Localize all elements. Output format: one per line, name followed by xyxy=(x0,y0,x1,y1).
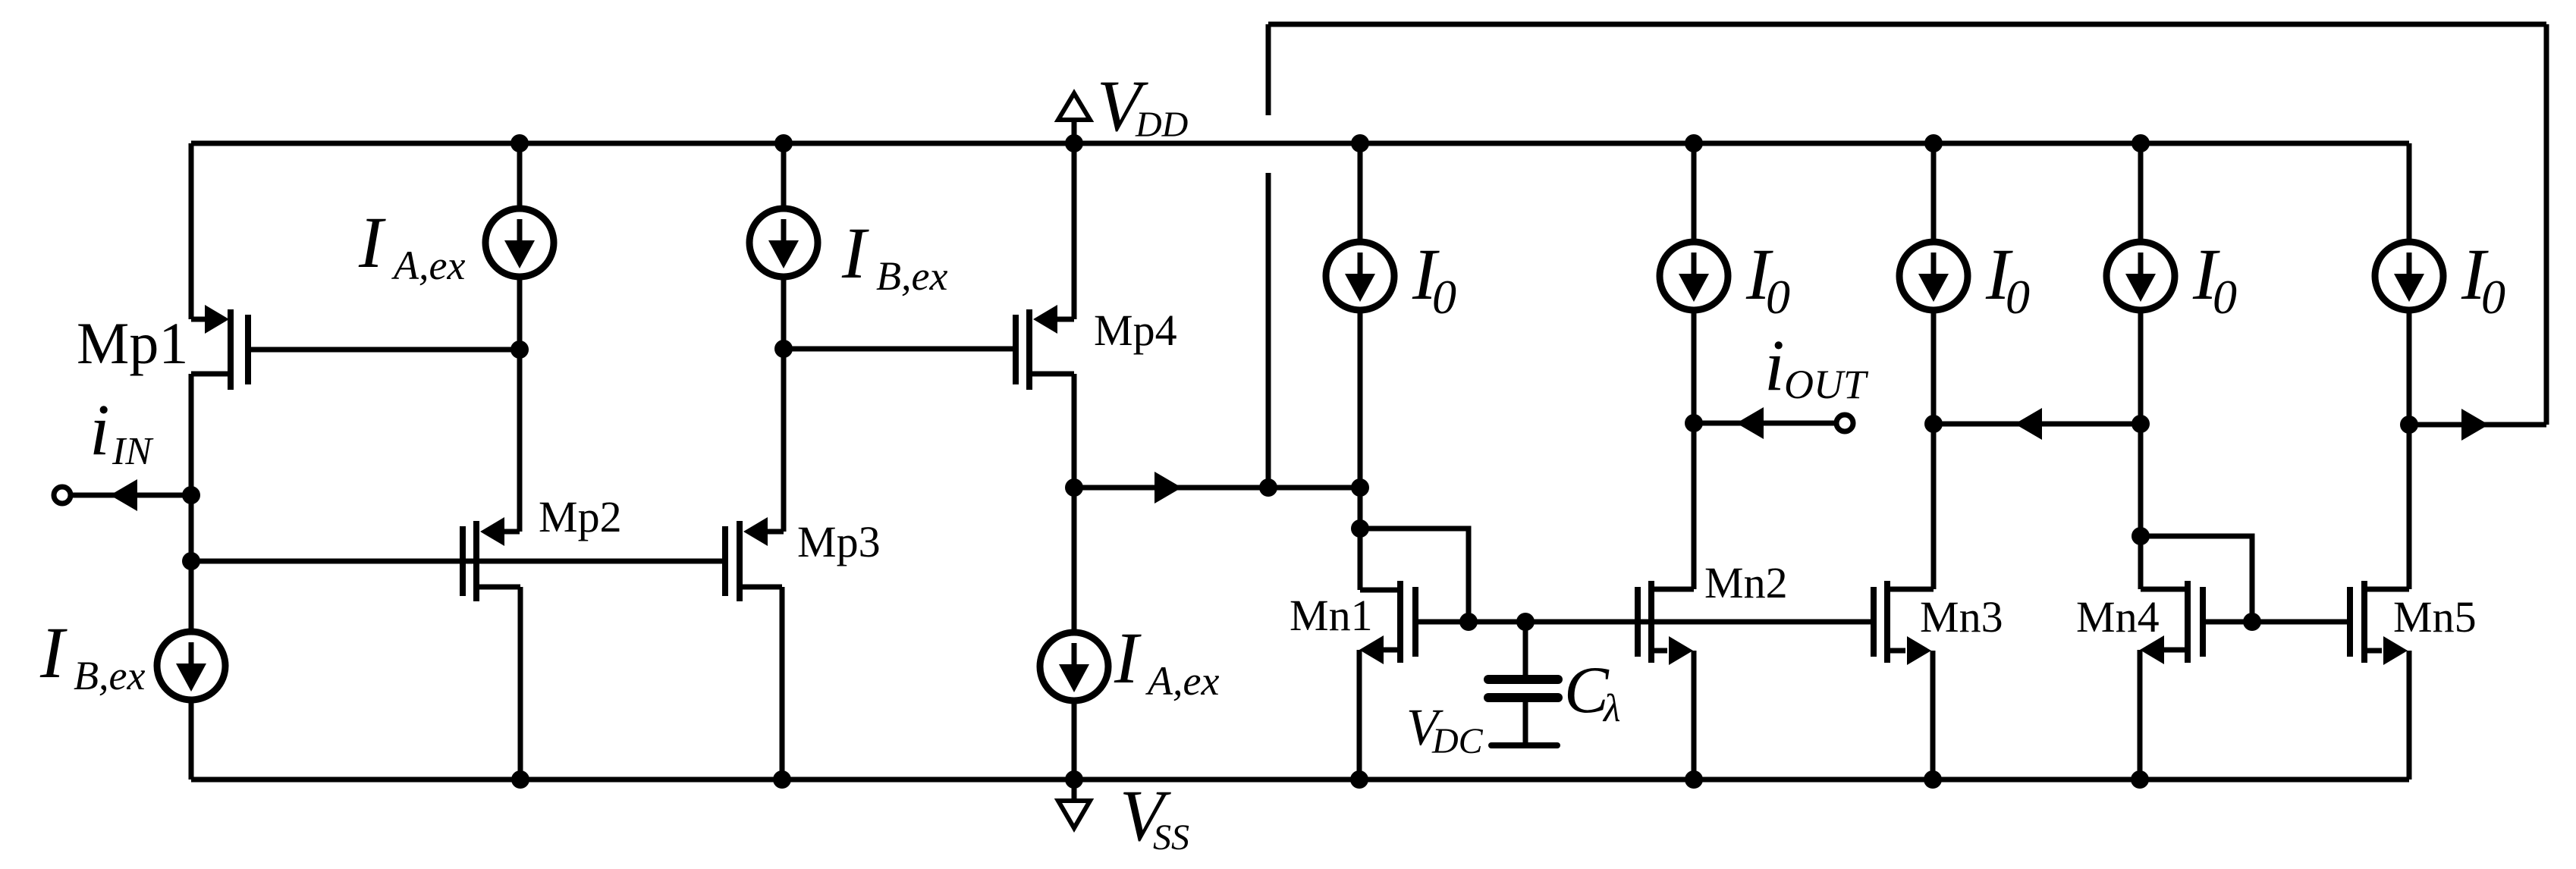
wire Mn4 diode loop xyxy=(2141,536,2252,622)
node VDD/I_0-3 junction xyxy=(1924,134,1943,152)
node Mp4 drain junction xyxy=(1065,478,1083,497)
svg-text:Mn4: Mn4 xyxy=(2076,592,2160,642)
wire Mn4 node to Mn3 node xyxy=(1934,422,2141,427)
svg-text:I: I xyxy=(39,612,68,693)
node Mn1 drain junction xyxy=(1351,478,1369,497)
wire VDD to I_0 fourth xyxy=(2138,143,2144,241)
transistor Mn5 xyxy=(2347,587,2353,657)
svg-text:A,ex: A,ex xyxy=(1145,658,1219,704)
wire I_A,ex bottom to VSS xyxy=(1072,701,1077,780)
wire Mn1 diode loop xyxy=(1360,529,1469,622)
wire VDD to I_0 third xyxy=(1931,143,1937,241)
svg-text:DC: DC xyxy=(1431,721,1484,761)
svg-text:0: 0 xyxy=(1432,270,1456,324)
capacitor C_lambda xyxy=(1523,622,1528,676)
current source I_0 third xyxy=(1899,242,1968,310)
svg-text:Mn1: Mn1 xyxy=(1290,591,1373,640)
node Mn4 diode junction xyxy=(2131,527,2150,545)
transistor Mn2 xyxy=(1635,587,1641,657)
node feedback/left junction xyxy=(1259,478,1277,497)
wire Mp4 drain to Mn1 drain node xyxy=(1074,485,1360,491)
wire I_0 to Mn1 drain xyxy=(1358,311,1363,590)
current source I_0 fourth xyxy=(2106,242,2175,310)
transistor Mp2 xyxy=(460,526,466,596)
wire VDD to I_A,ex xyxy=(517,143,523,208)
svg-text:0: 0 xyxy=(1766,270,1790,324)
wire feedback vertical left (above crossing) xyxy=(1266,24,1271,115)
svg-text:Mn2: Mn2 xyxy=(1704,558,1788,607)
wire VDD to Mp4 source xyxy=(1072,143,1077,319)
power symbol VSS xyxy=(1072,780,1077,801)
terminal i_IN xyxy=(54,487,71,504)
node Mn4 source / VSS junction xyxy=(2131,770,2149,789)
node Mn3 source / VSS junction xyxy=(1924,770,1942,789)
arrow i_OUT direction xyxy=(1736,407,1764,439)
wire Mp1 source to VDD xyxy=(189,143,194,319)
wire I_A,ex to node A and Mp2 source xyxy=(517,278,523,532)
svg-text:DD: DD xyxy=(1135,105,1188,145)
svg-text:Mn3: Mn3 xyxy=(1920,592,2003,642)
node i_OUT junction xyxy=(1685,414,1703,432)
node VDD/I_0-1 junction xyxy=(1351,134,1369,152)
svg-text:I: I xyxy=(358,202,386,283)
node gate bus / loop junction xyxy=(1459,613,1478,631)
wire Mn5 node to feedback xyxy=(2409,422,2546,428)
wire Mn1 drain stub xyxy=(1360,588,1400,593)
wire I_B,ex to VSS xyxy=(189,701,194,780)
node B junction xyxy=(774,340,793,358)
svg-text:I: I xyxy=(841,212,869,293)
svg-text:A,ex: A,ex xyxy=(391,243,465,288)
arrow current direction into Mn1 xyxy=(1154,472,1182,504)
transistor Mp1 xyxy=(191,317,207,322)
svg-text:IN: IN xyxy=(112,430,154,473)
svg-text:i: i xyxy=(1764,325,1785,406)
transistor Mn4 xyxy=(2185,581,2191,663)
node VDD/I_A,ex junction xyxy=(510,134,529,152)
node A junction xyxy=(510,340,529,359)
wire Mn4 source to VSS xyxy=(2138,650,2143,780)
wire feedback vertical left (below crossing) xyxy=(1266,173,1271,488)
wire Mp2 drain to VSS xyxy=(518,587,523,780)
node VDD/I_0-2 junction xyxy=(1685,134,1703,152)
node VDD/Mp4 junction xyxy=(1065,134,1083,152)
node Mn3 drain junction xyxy=(1924,415,1943,433)
node Mp2 drain / VSS junction xyxy=(511,770,529,789)
svg-text:C: C xyxy=(1564,654,1610,727)
wire Mn2 source to VSS xyxy=(1692,651,1697,780)
svg-text:B,ex: B,ex xyxy=(74,653,145,698)
arrow current direction into Mn3 xyxy=(2015,408,2042,440)
wire gate bus Mp2-Mp3 xyxy=(191,559,725,564)
current source I_0 first xyxy=(1326,242,1394,310)
wire VDD rail xyxy=(191,141,2409,146)
node Mp1 drain / gate-bus junction xyxy=(182,552,200,570)
transistor Mp4 xyxy=(1013,315,1019,384)
svg-text:Mp2: Mp2 xyxy=(539,492,622,541)
transistor Mn3 xyxy=(1871,587,1877,657)
wire i_OUT xyxy=(1694,421,1834,426)
svg-text:0: 0 xyxy=(2006,270,2030,324)
svg-text:I: I xyxy=(1114,617,1142,698)
wire I_0 to Mn3 drain xyxy=(1931,311,1937,589)
wire Mp3 drain to VSS xyxy=(780,587,785,780)
wire i_IN xyxy=(73,493,191,498)
node Mn2 source / VSS junction xyxy=(1685,770,1703,789)
svg-text:Mp1: Mp1 xyxy=(77,310,188,376)
transistor Mn1 xyxy=(1397,581,1403,663)
svg-text:i: i xyxy=(90,389,110,470)
arrow current direction to feedback xyxy=(2461,409,2489,441)
node Mp3 drain / VSS junction xyxy=(773,770,791,789)
current source I_0 fifth xyxy=(2375,242,2443,310)
svg-text:0: 0 xyxy=(2481,270,2505,324)
power symbol VDD xyxy=(1058,93,1090,120)
arrow i_IN direction xyxy=(110,479,137,511)
terminal i_OUT xyxy=(1836,415,1853,431)
current source I_A,ex (bottom) xyxy=(1040,632,1108,701)
node Mn1 source / VSS junction xyxy=(1350,770,1368,789)
node Mn1 diode junction xyxy=(1351,519,1369,538)
wire I_0 to Mn5 drain xyxy=(2407,311,2412,589)
svg-text:λ: λ xyxy=(1602,687,1621,730)
current source I_A,ex (top) xyxy=(485,209,554,277)
node VDD/I_0-4 junction xyxy=(2131,134,2150,152)
node gate bus / loop junction Mn4 xyxy=(2243,613,2261,631)
current source I_B,ex (top) xyxy=(749,209,818,277)
node I_A,ex / VSS junction xyxy=(1065,770,1083,789)
wire VSS rail xyxy=(191,777,2409,783)
wire Mn1 source to VSS xyxy=(1357,650,1362,780)
wire feedback vertical right xyxy=(2544,24,2549,425)
svg-text:Mp4: Mp4 xyxy=(1094,306,1177,355)
node gate bus / C junction xyxy=(1516,613,1535,631)
node VDD/I_B,ex junction xyxy=(774,134,793,152)
current source I_0 second xyxy=(1660,242,1728,310)
node Mn4 drain junction xyxy=(2131,415,2150,433)
wire I_0 to Mn2 drain xyxy=(1692,311,1697,589)
wire Mp4 drain down xyxy=(1072,374,1077,631)
wire feedback top xyxy=(1268,22,2546,27)
wire Mn4 drain stub xyxy=(2141,587,2188,592)
wire Mn5 source to VSS xyxy=(2407,651,2412,780)
current source I_B,ex (left) xyxy=(157,632,225,700)
wire VDD to I_0 first xyxy=(1358,143,1363,241)
wire Mn3 source to VSS xyxy=(1930,651,1936,780)
transistor Mp3 xyxy=(722,526,728,596)
svg-text:OUT: OUT xyxy=(1784,362,1869,407)
wire VDD to I_0 second xyxy=(1692,143,1697,241)
node i_IN junction xyxy=(182,486,200,504)
node Mn5 drain junction xyxy=(2400,416,2418,434)
wire I_0 to Mn4 drain xyxy=(2138,311,2144,589)
wire gate bus Mn1-Mn2-Mn3 xyxy=(1415,620,1874,625)
wire Mp1 drain down xyxy=(189,374,194,631)
svg-text:0: 0 xyxy=(2213,270,2237,324)
wire I_B,ex to Mp3 source xyxy=(781,278,787,532)
svg-text:B,ex: B,ex xyxy=(876,253,947,299)
svg-text:Mn5: Mn5 xyxy=(2393,592,2477,642)
wire VDD to I_B,ex top xyxy=(781,143,787,208)
terminal V_DC bar xyxy=(1491,742,1557,748)
wire gate bus Mn4-Mn5 xyxy=(2203,620,2350,625)
wire node B to Mp4 gate xyxy=(784,347,1016,352)
svg-text:Mp3: Mp3 xyxy=(797,517,881,566)
wire VDD corner to I_0 fifth xyxy=(2407,143,2412,241)
svg-text:SS: SS xyxy=(1153,817,1189,858)
wire Mp1 gate to node A xyxy=(248,347,520,353)
